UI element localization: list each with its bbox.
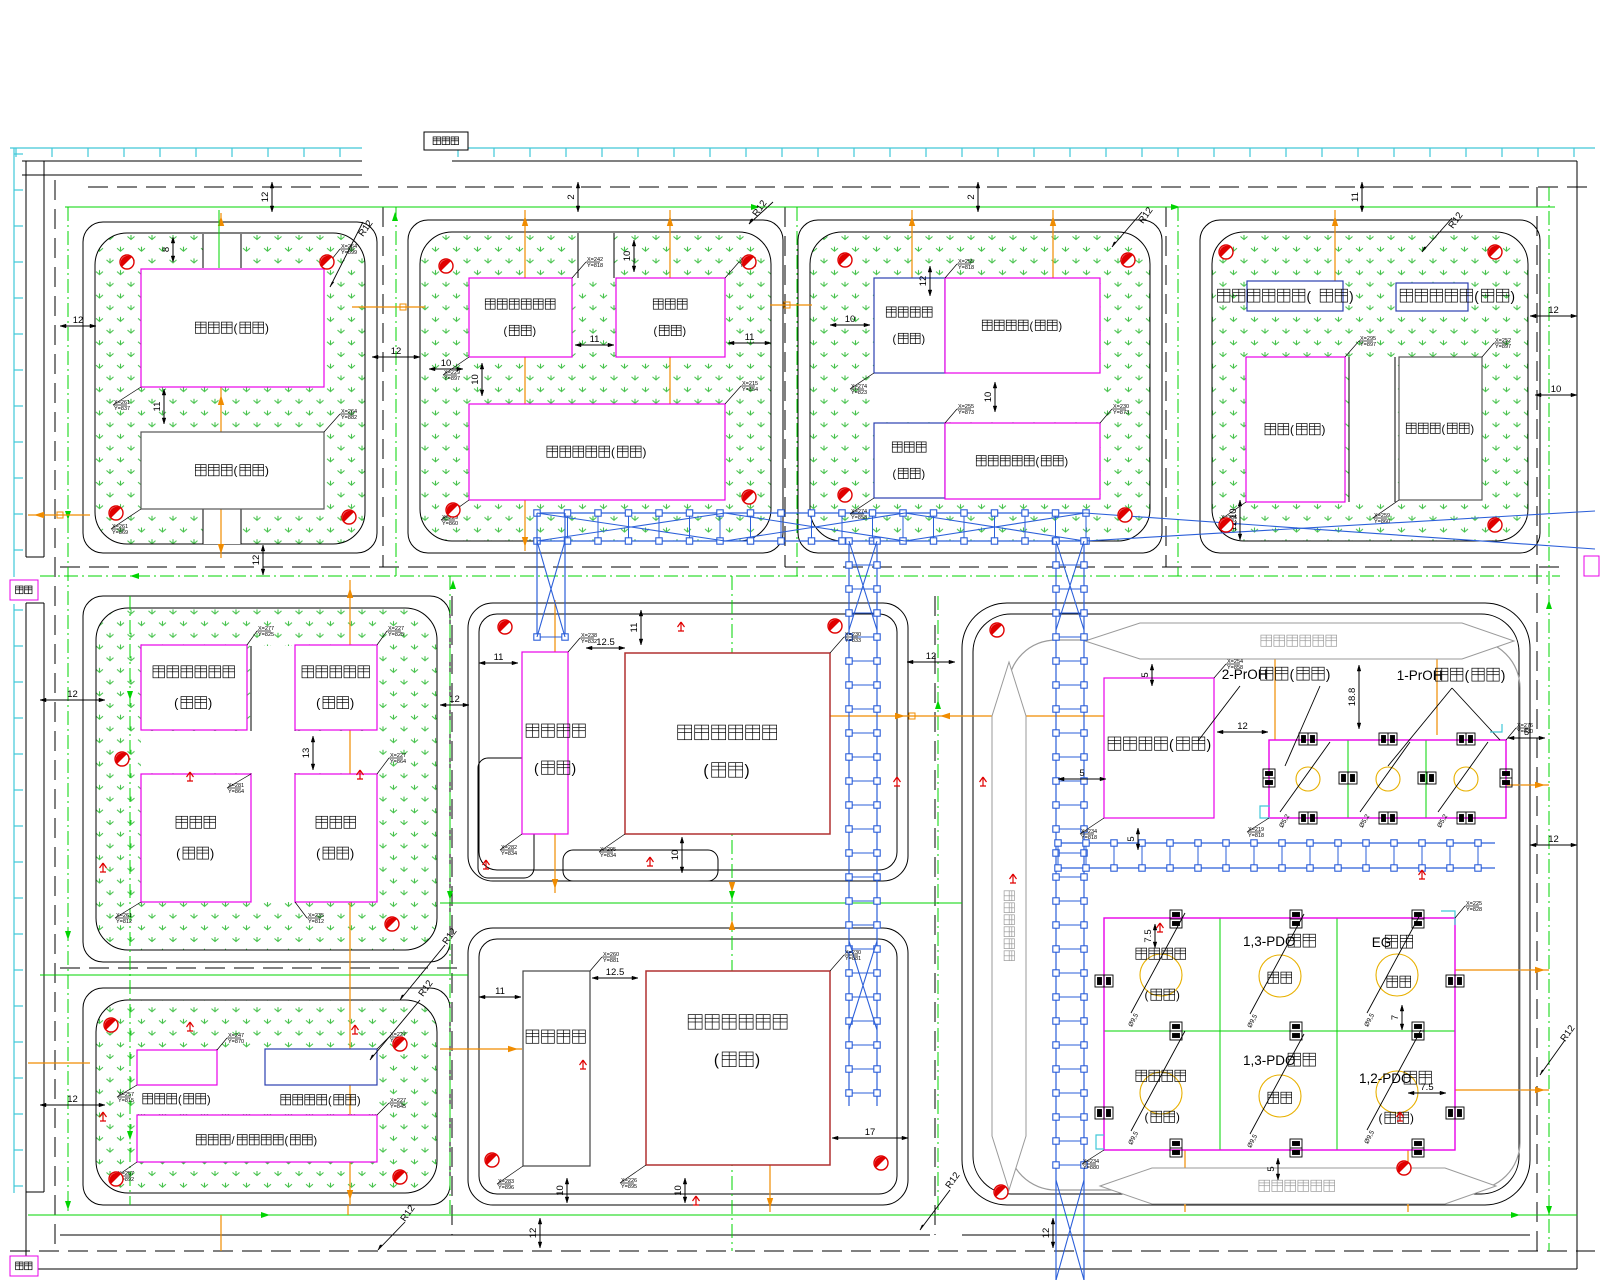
svg-text:11: 11 [629,623,640,633]
svg-text:): ) [643,446,647,459]
svg-text:(: ( [892,469,896,481]
svg-text:): ) [1065,456,1069,468]
svg-text:5: 5 [1266,1166,1277,1171]
svg-text:(: ( [1145,1111,1149,1124]
svg-text:(: ( [714,1052,719,1069]
svg-text:X=277: X=277 [258,626,274,632]
svg-text:12.5: 12.5 [596,637,615,648]
svg-text:5: 5 [1079,768,1084,779]
svg-text:): ) [572,760,577,776]
svg-text:10: 10 [845,314,856,325]
svg-text:(: ( [1290,667,1295,682]
svg-text:10: 10 [670,850,681,861]
svg-text:X=255: X=255 [958,404,974,410]
svg-text:12: 12 [67,1094,78,1105]
svg-text:Y=881: Y=881 [845,956,861,962]
svg-text:): ) [1326,667,1331,682]
svg-text:Y=830: Y=830 [1517,729,1533,735]
svg-text:): ) [922,334,926,346]
svg-text:X=234: X=234 [1081,829,1097,835]
svg-text:Y=845: Y=845 [390,1104,406,1110]
svg-text:X=252: X=252 [1495,338,1511,344]
svg-text:1,2-PDO: 1,2-PDO [1359,1071,1412,1086]
svg-text:): ) [922,469,926,481]
svg-text:Y=864: Y=864 [390,759,406,765]
svg-text:(: ( [1474,289,1479,304]
svg-text:(: ( [1029,320,1033,332]
svg-text:X=230: X=230 [845,632,861,638]
svg-text:Y=860: Y=860 [442,521,458,527]
svg-text:): ) [350,847,354,861]
svg-text:): ) [1322,424,1326,437]
svg-text:12: 12 [260,192,271,203]
svg-text:): ) [350,696,354,710]
svg-text:12: 12 [391,346,402,357]
svg-text:X=274: X=274 [851,384,867,390]
svg-text:(: ( [892,334,896,346]
svg-text:7.5: 7.5 [1143,929,1154,942]
svg-text:12: 12 [449,694,460,705]
svg-text:Y=897: Y=897 [444,376,460,382]
svg-text:(: ( [234,465,238,478]
svg-text:12: 12 [528,1228,539,1239]
svg-text:): ) [533,326,537,338]
svg-text:(: ( [1035,456,1039,468]
svg-text:X=255: X=255 [958,259,974,265]
svg-text:): ) [208,696,212,710]
svg-text:Y=825: Y=825 [388,632,404,638]
svg-text:): ) [1207,736,1212,752]
svg-text:(: ( [1290,424,1294,437]
svg-text:18.8: 18.8 [1347,688,1358,707]
svg-text:X=247: X=247 [228,1033,244,1039]
svg-text:10: 10 [622,251,633,262]
svg-text:/: / [231,1135,234,1147]
svg-text:): ) [1511,289,1516,304]
svg-text:12: 12 [73,315,84,326]
svg-text:11: 11 [152,402,163,412]
svg-text:Y=864: Y=864 [228,789,244,795]
svg-text:12: 12 [1548,834,1559,845]
svg-text:): ) [314,1135,318,1147]
svg-text:Y=896: Y=896 [498,1185,514,1191]
svg-text:10: 10 [1551,384,1562,395]
svg-text:10: 10 [983,392,994,403]
svg-text:Y=870: Y=870 [228,1039,244,1045]
svg-text:(: ( [1441,423,1445,435]
svg-text:(: ( [1379,1112,1383,1125]
svg-text:Y=858: Y=858 [1227,665,1243,671]
svg-text:Y=882: Y=882 [341,415,357,421]
svg-text:Y=869: Y=869 [112,530,128,536]
svg-text:): ) [1501,668,1506,683]
svg-text:Y=828: Y=828 [1466,907,1482,913]
svg-text:12: 12 [1548,305,1559,316]
svg-text:): ) [265,465,269,478]
svg-text:X=219: X=219 [1248,827,1264,833]
svg-text:Y=818: Y=818 [1081,835,1097,841]
svg-text:Y=880: Y=880 [1083,1165,1099,1171]
svg-text:5: 5 [1126,836,1137,841]
svg-text:X=276: X=276 [1517,723,1533,729]
svg-text:X=254: X=254 [1227,659,1243,665]
svg-text:X=283: X=283 [498,1179,514,1185]
svg-text:(: ( [1169,736,1174,752]
svg-text:X=225: X=225 [1466,901,1482,907]
svg-text:X=260: X=260 [603,952,619,958]
svg-text:Y=815: Y=815 [118,1098,134,1104]
svg-text:(: ( [1145,989,1149,1002]
svg-text:Y=881: Y=881 [603,958,619,964]
svg-text:X=230: X=230 [1113,404,1129,410]
svg-text:12: 12 [1041,1228,1052,1239]
svg-text:X=264: X=264 [341,244,357,250]
svg-text:11: 11 [494,652,504,663]
svg-text:Y=833: Y=833 [845,638,861,644]
svg-text:X=264: X=264 [341,409,357,415]
svg-text:): ) [1176,1111,1180,1124]
svg-text:): ) [745,763,750,780]
svg-text:12: 12 [918,276,929,287]
svg-text:Y=812: Y=812 [308,919,324,925]
svg-text:X=281: X=281 [228,783,244,789]
svg-text:EG: EG [1372,935,1392,950]
svg-text:X=234: X=234 [1083,1159,1099,1165]
svg-text:X=215: X=215 [742,381,758,387]
svg-text:Y=818: Y=818 [958,265,974,271]
svg-text:Y=873: Y=873 [1113,410,1129,416]
svg-text:(: ( [328,1095,332,1107]
svg-text:): ) [755,1052,760,1069]
svg-text:2: 2 [966,194,977,199]
svg-text:12: 12 [67,689,78,700]
svg-text:Y=823: Y=823 [851,390,867,396]
svg-text:Y=897: Y=897 [1360,342,1376,348]
svg-text:): ) [265,322,269,335]
svg-text:): ) [357,1095,361,1107]
svg-text:X=259: X=259 [1374,513,1390,519]
svg-text:13: 13 [301,748,312,759]
svg-text:X=274: X=274 [851,509,867,515]
svg-text:): ) [207,1094,211,1106]
svg-text:Y=818: Y=818 [587,263,603,269]
svg-text:X=261: X=261 [114,400,130,406]
svg-text:(: ( [234,322,238,335]
svg-text:10: 10 [555,1185,566,1196]
svg-text:7.5: 7.5 [1420,1082,1433,1093]
svg-text:Y=895: Y=895 [621,1184,637,1190]
svg-text:(: ( [534,760,539,776]
svg-text:X=295: X=295 [1360,336,1376,342]
svg-text:): ) [1349,289,1354,304]
svg-text:X=227: X=227 [390,753,406,759]
svg-text:X=235: X=235 [308,913,324,919]
svg-text:Y=834: Y=834 [501,851,517,857]
svg-text:X=227: X=227 [388,626,404,632]
svg-text:X=261: X=261 [116,913,132,919]
svg-text:10: 10 [470,374,481,385]
svg-text:(: ( [503,326,507,338]
svg-text:7: 7 [1390,1015,1401,1020]
svg-text:): ) [1059,320,1063,332]
svg-text:17: 17 [865,1127,876,1138]
svg-text:Y=858: Y=858 [851,515,867,521]
svg-text:12: 12 [251,555,262,566]
svg-text:X=230: X=230 [845,950,861,956]
svg-text:1,3-PDO: 1,3-PDO [1243,1053,1296,1068]
svg-text:Y=825: Y=825 [258,632,274,638]
svg-text:Y=812: Y=812 [116,919,132,925]
svg-text:X=282: X=282 [501,845,517,851]
svg-text:): ) [210,847,214,861]
svg-text:(: ( [284,1135,288,1147]
svg-text:X=229: X=229 [444,370,460,376]
svg-text:(: ( [1307,289,1312,304]
svg-text:Y=834: Y=834 [600,853,616,859]
svg-text:1,3-PDO: 1,3-PDO [1243,934,1296,949]
svg-text:11: 11 [590,334,600,345]
svg-text:11: 11 [745,332,755,343]
svg-text:X=257: X=257 [118,1092,134,1098]
svg-text:X=242: X=242 [587,257,603,263]
svg-text:Y=873: Y=873 [958,410,974,416]
svg-text:(: ( [611,446,615,459]
svg-text:Y=854: Y=854 [742,387,758,393]
svg-text:): ) [1471,423,1475,435]
svg-text:2: 2 [566,194,577,199]
svg-text:8: 8 [161,247,172,252]
svg-text:(: ( [653,326,657,338]
svg-text:Y=860: Y=860 [1374,519,1390,525]
svg-text:): ) [1410,1112,1414,1125]
svg-text:Y=832: Y=832 [581,639,597,645]
svg-text:10: 10 [441,358,452,369]
svg-text:5: 5 [1140,672,1151,677]
svg-text:Y=899: Y=899 [341,250,357,256]
svg-text:): ) [683,326,687,338]
svg-text:X=295: X=295 [600,847,616,853]
svg-text:12: 12 [926,651,937,662]
svg-text:(: ( [1465,668,1470,683]
svg-text:Y=897: Y=897 [1495,344,1511,350]
svg-text:X=227: X=227 [390,1098,406,1104]
svg-text:): ) [1176,989,1180,1002]
svg-text:Y=837: Y=837 [114,406,130,412]
svg-text:(: ( [703,763,708,780]
svg-text:X=238: X=238 [581,633,597,639]
svg-text:Y=818: Y=818 [1248,833,1264,839]
svg-text:X=261: X=261 [112,524,128,530]
svg-text:(: ( [178,1094,182,1106]
svg-text:10: 10 [673,1185,684,1196]
svg-text:11: 11 [495,986,505,997]
svg-text:12: 12 [1237,721,1248,732]
svg-text:X=226: X=226 [621,1178,637,1184]
svg-text:12.5: 12.5 [606,967,625,978]
svg-text:11: 11 [1350,192,1361,202]
